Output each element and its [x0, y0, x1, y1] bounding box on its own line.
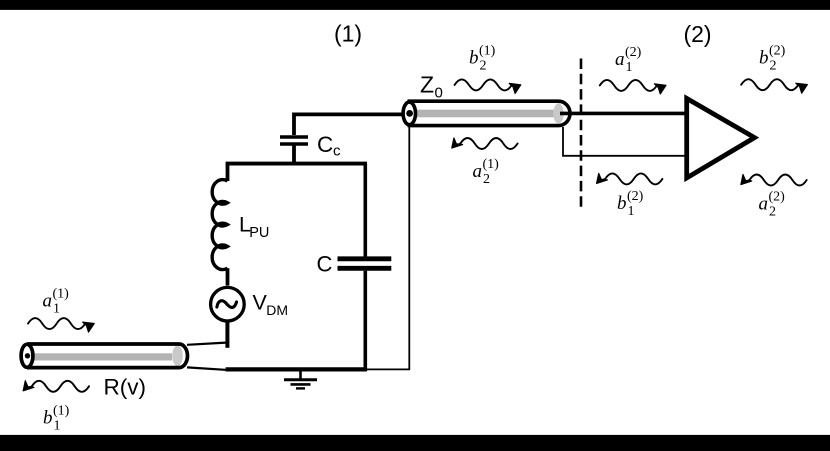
wave label a2(2) with backward arrow — [741, 175, 807, 220]
dashed reference plane between (1) and (2) — [580, 59, 583, 212]
wave label b2(1) with forward arrow — [455, 44, 521, 94]
svg-text:Z: Z — [420, 72, 434, 98]
ground symbol — [284, 371, 317, 388]
label L_PU — [239, 212, 269, 241]
svg-text:1: 1 — [626, 60, 633, 75]
label Cc — [317, 132, 341, 160]
svg-text:PU: PU — [249, 225, 269, 241]
wire: shield return path to amplifier (thin rectangle) — [563, 127, 687, 156]
svg-text:(2): (2) — [769, 44, 786, 59]
svg-text:a: a — [615, 49, 625, 70]
label V_DM — [253, 291, 289, 319]
wave label a1(1) with forward arrow — [28, 287, 94, 333]
transmission line Z0 (coax barrel) — [403, 101, 570, 125]
svg-text:(1): (1) — [483, 157, 500, 172]
wire: coax shield to ground bus — [187, 367, 231, 370]
svg-text:(1): (1) — [479, 44, 496, 59]
wire: source bottom stub — [225, 320, 229, 348]
svg-text:(2): (2) — [769, 190, 786, 205]
svg-text:1: 1 — [54, 419, 61, 434]
svg-text:b: b — [759, 48, 769, 69]
svg-text:b: b — [43, 408, 53, 429]
svg-text:2: 2 — [769, 205, 776, 220]
svg-text:R(v): R(v) — [104, 375, 146, 400]
svg-text:(1): (1) — [53, 404, 70, 419]
svg-text:C: C — [317, 251, 333, 276]
amplifier triangle — [687, 98, 755, 177]
wave label b1(1) with backward arrow — [23, 381, 89, 434]
svg-text:a: a — [43, 291, 53, 312]
wire: resonator box top — [226, 162, 367, 166]
svg-text:2: 2 — [483, 172, 490, 187]
wire: right branch lower — [363, 271, 367, 371]
wave label b2(2) with forward arrow — [741, 44, 807, 94]
wire: Z0 center conductor to amplifier input — [560, 112, 688, 116]
ground bus wire — [226, 367, 367, 371]
wave label b1(2) with backward arrow — [597, 173, 663, 219]
inductor L_PU — [212, 180, 227, 270]
capacitor Cc — [280, 137, 308, 165]
wire: coax center conductor to source stub — [187, 343, 226, 345]
wire: thin bus extension to shield drop — [365, 368, 410, 370]
svg-text:(1): (1) — [334, 20, 362, 46]
svg-text:(2): (2) — [627, 189, 644, 204]
source V_DM (sine source) — [211, 287, 245, 321]
svg-text:(2): (2) — [625, 45, 642, 60]
wire: Z0 shield drop to ground bus — [408, 127, 410, 370]
svg-text:(2): (2) — [683, 21, 711, 47]
capacitor C — [338, 259, 392, 269]
svg-text:2: 2 — [770, 59, 777, 74]
label Z0 — [420, 72, 443, 102]
wave label a1(2) with forward arrow — [600, 45, 666, 94]
svg-text:0: 0 — [435, 85, 443, 102]
svg-text:b: b — [469, 48, 479, 69]
svg-text:1: 1 — [53, 302, 60, 317]
svg-text:b: b — [617, 193, 627, 214]
svg-text:a: a — [473, 161, 483, 182]
wire: inductor to source — [226, 268, 230, 285]
svg-text:c: c — [333, 143, 341, 160]
svg-text:(1): (1) — [53, 287, 70, 302]
wire: box left upper segment — [226, 164, 230, 181]
wave label a2(1) with backward arrow — [452, 138, 518, 187]
svg-text:C: C — [317, 132, 333, 157]
svg-text:1: 1 — [628, 204, 635, 219]
wire from Cc top plate up and over to Z0 line — [294, 114, 404, 135]
transmission line R(v) (input coax barrel) — [21, 344, 187, 368]
wire: right branch upper (box right side) — [363, 164, 367, 257]
svg-text:a: a — [759, 194, 769, 215]
svg-text:2: 2 — [480, 59, 487, 74]
svg-text:V: V — [253, 291, 268, 315]
svg-text:DM: DM — [266, 302, 288, 318]
